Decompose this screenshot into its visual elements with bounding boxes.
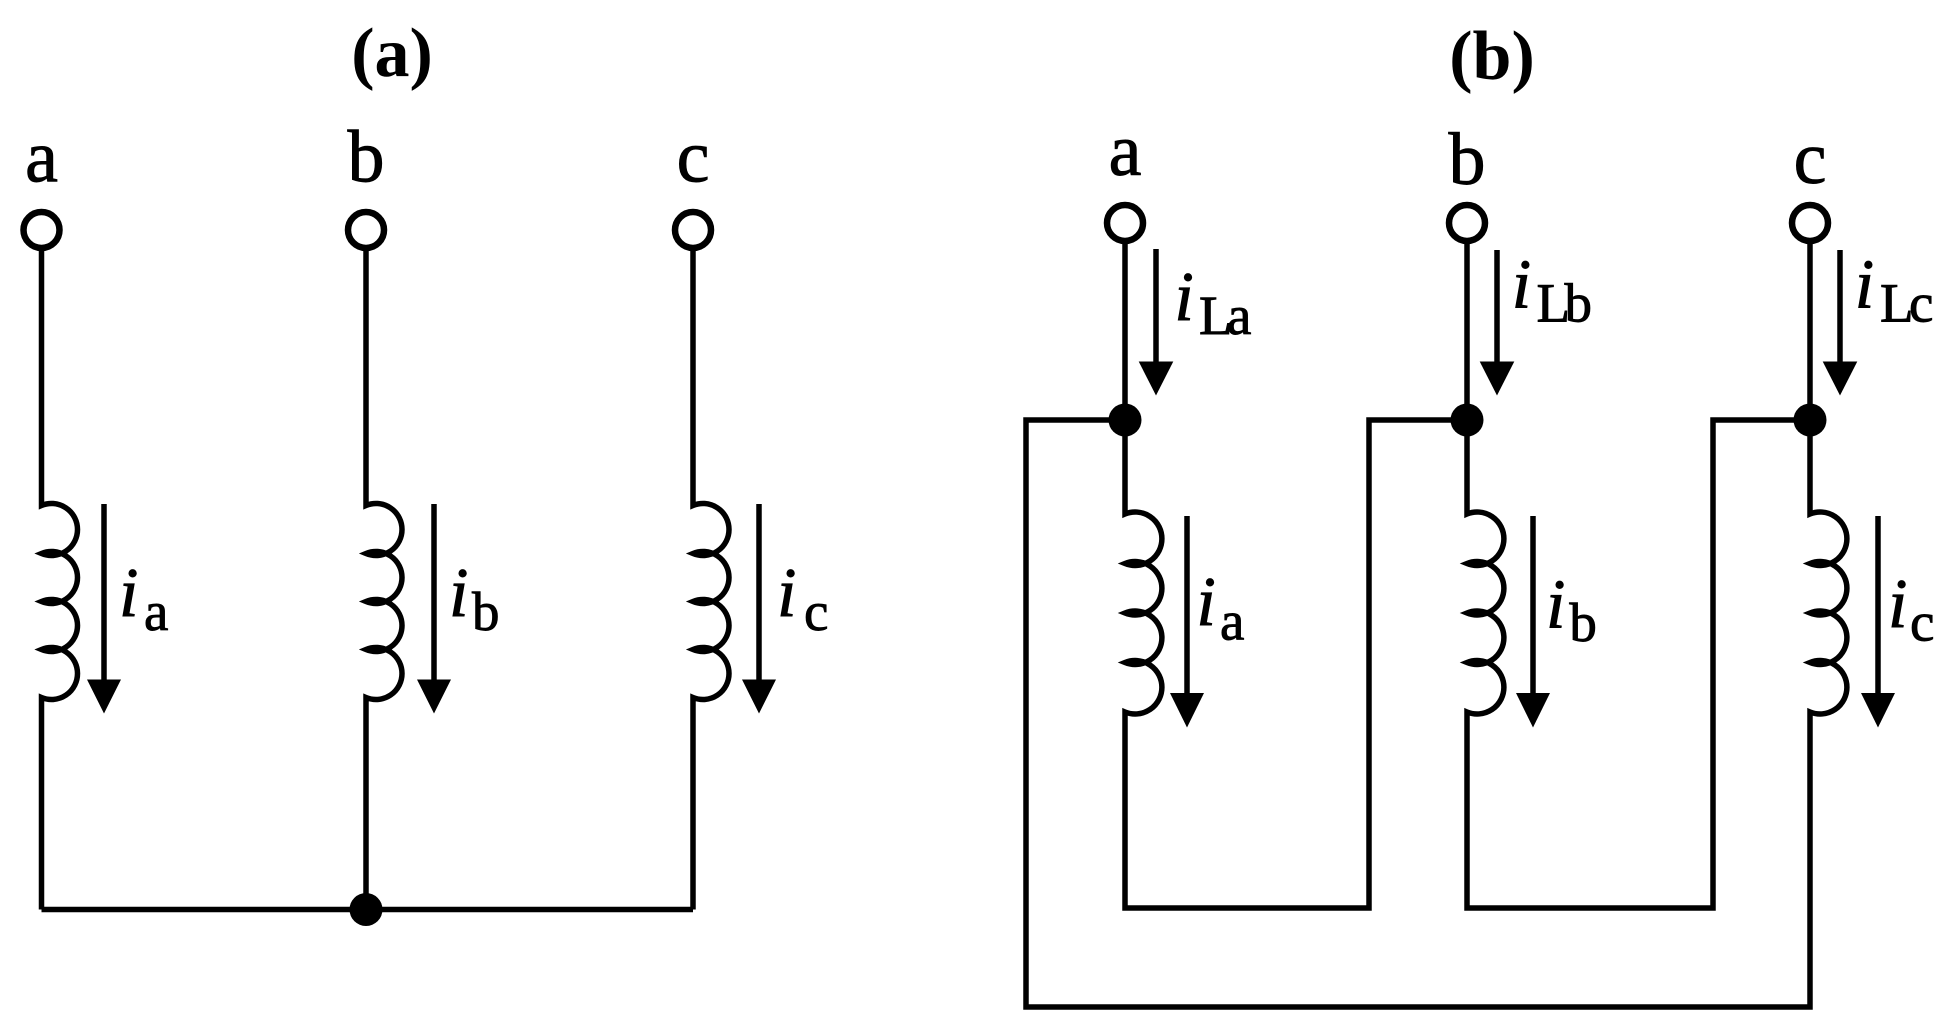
svg-text:c: c <box>804 581 828 642</box>
svg-text:i: i <box>1546 567 1565 644</box>
svg-text:(a): (a) <box>351 15 433 92</box>
svg-text:i: i <box>449 555 468 632</box>
svg-text:c: c <box>677 117 710 199</box>
svg-text:(b): (b) <box>1449 18 1535 95</box>
svg-text:a: a <box>1227 285 1251 346</box>
svg-text:c: c <box>1794 118 1827 200</box>
svg-text:a: a <box>1220 591 1244 652</box>
svg-text:b: b <box>1569 592 1597 653</box>
svg-text:i: i <box>1888 566 1907 643</box>
svg-text:b: b <box>1565 273 1593 334</box>
svg-text:c: c <box>1909 273 1933 334</box>
svg-text:i: i <box>1196 564 1215 641</box>
svg-text:a: a <box>1109 110 1142 192</box>
svg-text:b: b <box>472 581 500 642</box>
svg-text:i: i <box>1855 247 1874 324</box>
svg-text:c: c <box>1910 591 1934 652</box>
svg-text:i: i <box>1174 259 1193 336</box>
svg-text:i: i <box>1512 247 1531 324</box>
svg-text:b: b <box>1449 119 1486 201</box>
svg-text:i: i <box>119 555 138 632</box>
svg-text:a: a <box>25 117 58 199</box>
svg-text:a: a <box>144 581 168 642</box>
svg-text:b: b <box>348 117 385 199</box>
svg-text:i: i <box>777 555 796 632</box>
